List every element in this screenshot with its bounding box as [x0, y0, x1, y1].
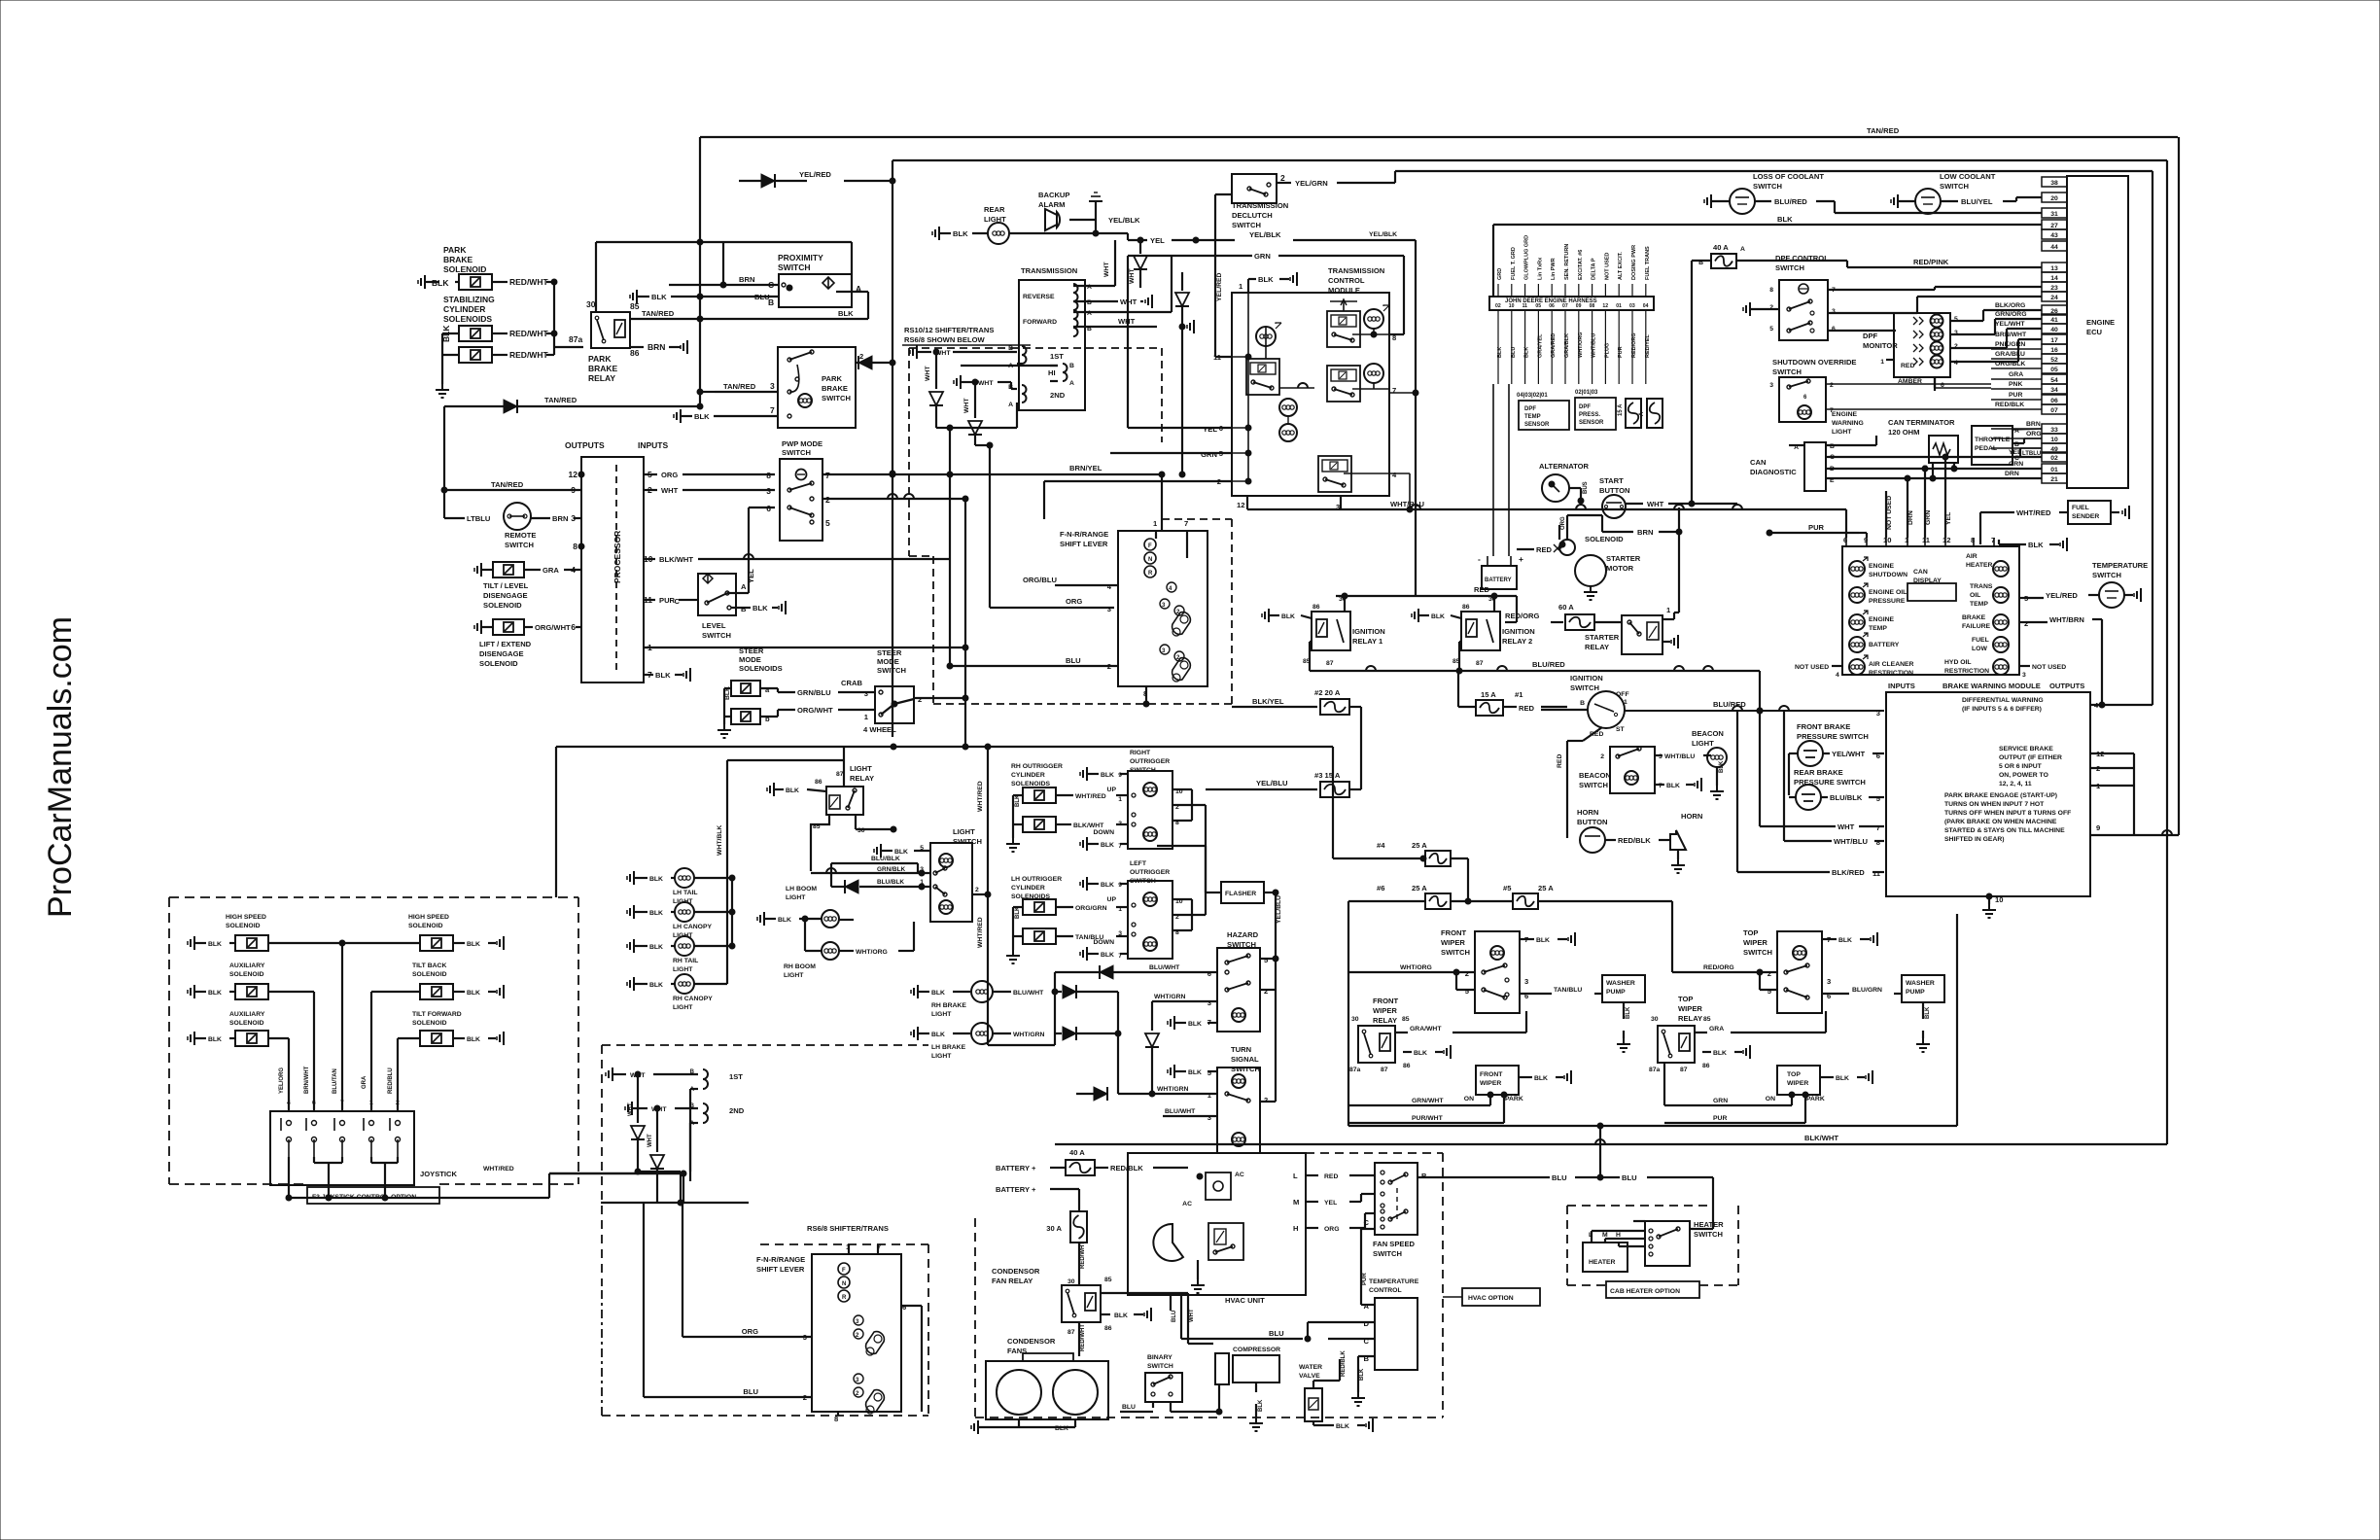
wire second top — [892, 159, 2167, 161]
svg-text:HORN: HORN — [1681, 812, 1702, 821]
john deere harness — [1489, 297, 1654, 310]
svg-text:YEL: YEL — [1203, 425, 1217, 434]
wire PUR pin11 — [644, 599, 655, 601]
svg-text:85: 85 — [630, 301, 640, 311]
svg-text:RESTRICTION: RESTRICTION — [1944, 668, 1989, 675]
svg-text:7: 7 — [770, 405, 775, 415]
wire BLK to proximity — [636, 290, 638, 303]
svg-text:02: 02 — [1495, 303, 1501, 309]
svg-text:CYLINDER: CYLINDER — [1011, 772, 1045, 779]
svg-text:SOLENOID: SOLENOID — [1585, 535, 1624, 543]
wire WHT/BLU row — [1341, 508, 1846, 510]
rs6/8 coils — [612, 1067, 613, 1081]
svg-text:YEL/WHT: YEL/WHT — [1832, 750, 1866, 758]
svg-text:B: B — [741, 605, 747, 613]
wire YEL row — [1127, 233, 1129, 240]
svg-text:6: 6 — [766, 504, 771, 513]
svg-text:86: 86 — [815, 779, 822, 786]
svg-text:BLK: BLK — [1666, 783, 1680, 789]
svg-text:07: 07 — [2050, 407, 2058, 414]
svg-text:8: 8 — [1769, 287, 1773, 294]
svg-text:HI: HI — [1048, 368, 1056, 377]
svg-text:BLK/YEL: BLK/YEL — [1252, 697, 1284, 706]
svg-text:FUEL: FUEL — [2072, 505, 2089, 511]
engine ecu pin column — [2042, 177, 2067, 187]
svg-text:2: 2 — [1280, 173, 1285, 183]
svg-text:87: 87 — [1067, 1329, 1075, 1336]
svg-text:PUR: PUR — [1713, 1115, 1727, 1122]
wire BLU/WHT turn3 — [1163, 1115, 1217, 1117]
wire PUR display — [1769, 532, 1859, 534]
svg-text:LIGHT: LIGHT — [931, 1011, 952, 1018]
svg-text:ST: ST — [1616, 726, 1626, 733]
svg-text:BLK: BLK — [838, 309, 854, 318]
svg-text:24: 24 — [2050, 295, 2058, 301]
svg-text:HVAC UNIT: HVAC UNIT — [1225, 1296, 1265, 1305]
wire whtblk branch — [727, 759, 844, 761]
svg-text:30: 30 — [1067, 1278, 1075, 1285]
svg-text:LIGHT: LIGHT — [784, 972, 804, 979]
svg-text:SWITCH: SWITCH — [1772, 367, 1802, 376]
svg-text:BRN/WHT: BRN/WHT — [1995, 332, 2027, 338]
svg-text:3: 3 — [1827, 977, 1831, 986]
water valve gnd — [1312, 1421, 1314, 1425]
svg-text:DECLUTCH: DECLUTCH — [1232, 211, 1273, 220]
svg-text:B: B — [1580, 700, 1585, 707]
svg-text:3: 3 — [1207, 1113, 1211, 1122]
svg-text:TAN/RED: TAN/RED — [491, 480, 524, 489]
can vertical drops — [1944, 457, 1946, 538]
svg-text:TOP: TOP — [1787, 1071, 1801, 1078]
svg-text:33: 33 — [2050, 427, 2058, 434]
svg-text:1ST: 1ST — [729, 1072, 743, 1081]
svg-text:PARK: PARK — [588, 354, 612, 364]
svg-text:DPF: DPF — [1524, 406, 1536, 412]
svg-text:SOLENOID: SOLENOID — [443, 264, 486, 274]
wire HI B WHT gnd — [961, 365, 1058, 367]
svg-text:40 A: 40 A — [1069, 1148, 1085, 1157]
svg-text:TAN/RED: TAN/RED — [642, 309, 675, 318]
svg-text:RED: RED — [1557, 754, 1563, 768]
svg-text:TRANSMISSION: TRANSMISSION — [1021, 266, 1077, 275]
svg-text:PROXIMITY: PROXIMITY — [778, 253, 823, 262]
svg-text:MODE: MODE — [739, 655, 761, 664]
svg-text:RH OUTRIGGER: RH OUTRIGGER — [1011, 763, 1063, 770]
svg-text:TEMPERATURE: TEMPERATURE — [2092, 561, 2148, 570]
svg-text:15 A: 15 A — [1481, 690, 1496, 699]
svg-text:2ND: 2ND — [729, 1106, 745, 1115]
svg-text:BLK: BLK — [467, 1036, 480, 1043]
svg-text:FRONT: FRONT — [1373, 997, 1399, 1005]
svg-text:#6: #6 — [1377, 884, 1384, 892]
svg-text:PARK: PARK — [1806, 1096, 1825, 1102]
svg-text:LEVEL: LEVEL — [702, 621, 726, 630]
svg-text:BLU: BLU — [754, 293, 770, 301]
rh tail light — [633, 939, 635, 953]
lever sub contacts 1 — [1167, 582, 1176, 592]
svg-text:RED: RED — [1519, 704, 1535, 713]
svg-text:TEMP: TEMP — [1869, 625, 1887, 632]
svg-text:DELTA P: DELTA P — [1592, 258, 1597, 280]
svg-text:WHT: WHT — [661, 486, 679, 495]
diode vertical 1 — [933, 349, 939, 355]
wire TAN/RED diode row — [444, 405, 700, 407]
rs6/8 diodes — [637, 1074, 639, 1123]
heater — [1583, 1242, 1627, 1272]
svg-text:CAB HEATER OPTION: CAB HEATER OPTION — [1610, 1288, 1680, 1295]
svg-text:SOLENOID: SOLENOID — [483, 601, 522, 610]
svg-text:WIPER: WIPER — [1480, 1080, 1501, 1087]
svg-text:AIR CLEANER: AIR CLEANER — [1869, 661, 1914, 668]
svg-text:BLU/BLK: BLU/BLK — [871, 856, 900, 862]
svg-text:RELAY: RELAY — [850, 774, 874, 783]
svg-text:CYLINDER: CYLINDER — [1011, 885, 1045, 892]
svg-text:30: 30 — [586, 299, 596, 309]
svg-text:DISENGAGE: DISENGAGE — [479, 649, 524, 658]
svg-text:GLOWPLUG GRD: GLOWPLUG GRD — [1524, 235, 1530, 280]
engine ecu box — [2067, 176, 2128, 488]
svg-text:BLK: BLK — [1101, 842, 1114, 849]
svg-text:ORG: ORG — [1066, 597, 1082, 606]
svg-text:BRAKE: BRAKE — [588, 364, 618, 373]
svg-text:11: 11 — [1872, 869, 1881, 878]
svg-text:PNK/GRN: PNK/GRN — [1995, 341, 2025, 348]
svg-text:3: 3 — [1876, 709, 1880, 717]
svg-text:5: 5 — [825, 518, 830, 528]
svg-text:04: 04 — [1643, 303, 1649, 309]
svg-text:BLU/GRN: BLU/GRN — [1852, 987, 1882, 994]
svg-text:FUEL: FUEL — [1972, 637, 1989, 644]
svg-text:SWITCH: SWITCH — [1373, 1249, 1402, 1258]
svg-text:B: B — [690, 1069, 695, 1075]
svg-text:WHT/BLK: WHT/BLK — [717, 825, 723, 856]
svg-text:DRN: DRN — [1907, 510, 1914, 525]
svg-text:GRN/BLK: GRN/BLK — [877, 866, 905, 873]
light switch rows — [831, 862, 914, 864]
svg-text:F: F — [842, 1268, 846, 1274]
wire pin7 ground — [644, 674, 653, 676]
svg-text:PNK: PNK — [2009, 381, 2022, 388]
svg-text:BRN: BRN — [552, 514, 568, 523]
svg-text:WASHER: WASHER — [1906, 980, 1935, 987]
svg-text:MONITOR: MONITOR — [1863, 341, 1898, 350]
wire forward B WHT ground — [1073, 326, 1157, 328]
svg-text:1: 1 — [1624, 699, 1627, 706]
svg-text:TILT / LEVEL: TILT / LEVEL — [483, 581, 529, 590]
svg-text:#1: #1 — [1515, 690, 1523, 699]
svg-text:BLK: BLK — [649, 876, 663, 883]
remote switch — [444, 517, 465, 519]
svg-text:GRN: GRN — [1713, 1098, 1728, 1104]
svg-text:LIGHT: LIGHT — [673, 1004, 693, 1011]
svg-text:6: 6 — [571, 622, 576, 632]
svg-text:WHT/BLU: WHT/BLU — [1834, 837, 1869, 846]
svg-text:RED: RED — [1536, 545, 1553, 554]
joystick common — [313, 1157, 315, 1163]
svg-text:BLK: BLK — [1101, 952, 1114, 959]
svg-text:1: 1 — [1880, 359, 1884, 366]
svg-text:43: 43 — [2050, 232, 2058, 239]
svg-text:SOLENOID: SOLENOID — [412, 1020, 447, 1027]
svg-text:B: B — [1008, 345, 1013, 352]
joystick box — [270, 1111, 414, 1185]
svg-text:HYD OIL: HYD OIL — [1944, 659, 1972, 666]
wire BLK/WHT long — [1055, 1143, 2167, 1145]
svg-text:Lin TxRx: Lin TxRx — [1537, 257, 1543, 280]
svg-text:GRA: GRA — [542, 566, 559, 575]
svg-text:PRESSURE: PRESSURE — [1869, 598, 1906, 605]
svg-text:(IF INPUTS 5 & 6 DIFFER): (IF INPUTS 5 & 6 DIFFER) — [1962, 706, 2042, 713]
svg-text:TEMP: TEMP — [1970, 601, 1988, 608]
svg-text:05: 05 — [2050, 367, 2058, 373]
svg-text:RS6/8 SHIFTER/TRANS: RS6/8 SHIFTER/TRANS — [807, 1224, 889, 1233]
svg-text:WIPER: WIPER — [1787, 1080, 1808, 1087]
svg-text:OFF: OFF — [1616, 691, 1629, 698]
svg-text:YEL/ORG: YEL/ORG — [279, 1067, 285, 1094]
svg-text:8: 8 — [766, 471, 771, 480]
svg-text:SWITCH: SWITCH — [1775, 263, 1804, 272]
svg-text:LH TAIL: LH TAIL — [673, 890, 698, 896]
svg-text:WIPER: WIPER — [1441, 938, 1465, 947]
svg-text:BATTERY: BATTERY — [1485, 577, 1512, 583]
svg-text:BLU: BLU — [1172, 1311, 1177, 1322]
svg-text:WHT/RED: WHT/RED — [2016, 508, 2051, 517]
svg-text:3: 3 — [1769, 382, 1773, 389]
svg-text:HORN: HORN — [1577, 808, 1598, 817]
svg-text:6: 6 — [1207, 969, 1211, 978]
svg-text:PRESS.: PRESS. — [1579, 412, 1600, 418]
lh tail light — [633, 871, 635, 885]
svg-text:TAN/BLU: TAN/BLU — [1075, 934, 1103, 941]
tilt/level disengage solenoid — [480, 563, 482, 577]
svg-text:85: 85 — [1703, 1016, 1711, 1023]
fans ground — [977, 1420, 979, 1434]
svg-text:BRN/WHT: BRN/WHT — [304, 1066, 310, 1094]
svg-text:87a: 87a — [1649, 1067, 1661, 1073]
front wiper motor — [1476, 1066, 1519, 1095]
svg-text:10: 10 — [1509, 303, 1515, 309]
svg-text:2ND: 2ND — [1050, 391, 1066, 400]
wire whtred joystick row — [549, 1172, 683, 1174]
svg-text:FAN RELAY: FAN RELAY — [992, 1277, 1032, 1285]
svg-text:38: 38 — [2050, 180, 2058, 187]
svg-text:BRN: BRN — [1637, 528, 1653, 537]
svg-text:HAZARD: HAZARD — [1227, 930, 1259, 939]
svg-text:BLU: BLU — [1066, 656, 1081, 665]
top wiper motor — [1777, 1066, 1820, 1095]
svg-text:87: 87 — [1381, 1067, 1388, 1073]
display lamps right — [1993, 561, 2009, 577]
svg-text:BRN: BRN — [2026, 421, 2041, 428]
wire BLU tempctl — [1181, 1338, 1303, 1340]
svg-text:SWITCH: SWITCH — [1147, 1363, 1173, 1370]
svg-text:2: 2 — [975, 887, 979, 893]
svg-text:YEL: YEL — [747, 569, 755, 583]
svg-text:PEDAL: PEDAL — [1975, 445, 1997, 452]
wire ORG vertical — [1558, 525, 1560, 540]
svg-text:C: C — [1364, 1218, 1370, 1227]
svg-text:DOSING PWR: DOSING PWR — [1631, 245, 1637, 280]
svg-text:M: M — [1293, 1198, 1299, 1207]
svg-text:DPF CONTROL: DPF CONTROL — [1775, 254, 1829, 262]
rh brake light — [917, 985, 919, 998]
svg-text:TOP: TOP — [1678, 995, 1693, 1003]
svg-text:LIGHT: LIGHT — [953, 827, 975, 836]
svg-text:WASHER: WASHER — [1606, 980, 1635, 987]
svg-text:BLK/WHT: BLK/WHT — [659, 555, 693, 564]
svg-text:WARNING: WARNING — [1832, 420, 1864, 427]
svg-text:SWITCH: SWITCH — [1743, 948, 1772, 957]
wire WHT module7 — [1760, 825, 1836, 827]
svg-text:ON: ON — [1464, 1096, 1474, 1102]
svg-text:BLU: BLU — [1552, 1173, 1567, 1182]
svg-text:WIPER: WIPER — [1678, 1004, 1702, 1013]
svg-text:2: 2 — [918, 695, 922, 704]
svg-text:PUMP: PUMP — [1906, 989, 1925, 996]
svg-text:RED/PINK: RED/PINK — [1913, 258, 1949, 266]
svg-text:PARK: PARK — [443, 245, 467, 255]
svg-text:RS6/8 SHOWN BELOW: RS6/8 SHOWN BELOW — [904, 335, 986, 344]
coil 2ND — [1022, 385, 1027, 402]
wire WHT riser — [1187, 1293, 1189, 1344]
svg-text:86: 86 — [1403, 1063, 1411, 1069]
svg-text:14: 14 — [2050, 275, 2058, 282]
svg-text:SOLENOID: SOLENOID — [226, 923, 261, 929]
svg-text:A: A — [1364, 1302, 1370, 1311]
svg-text:SWITCH: SWITCH — [1232, 221, 1261, 229]
svg-text:4: 4 — [287, 1100, 291, 1106]
svg-text:RH BRAKE: RH BRAKE — [931, 1002, 966, 1009]
svg-text:DIFFERENTIAL WARNING: DIFFERENTIAL WARNING — [1962, 697, 2044, 704]
svg-text:TAN/RED: TAN/RED — [544, 396, 577, 404]
svg-text:DIAGNOSTIC: DIAGNOSTIC — [1750, 468, 1797, 476]
svg-text:DRN: DRN — [2005, 471, 2019, 477]
svg-text:HEATER: HEATER — [1966, 562, 1993, 569]
svg-text:YEL: YEL — [1150, 236, 1165, 245]
svg-text:A: A — [1008, 402, 1013, 408]
svg-text:RED/WHT: RED/WHT — [1080, 1242, 1086, 1269]
fuel sender — [1980, 511, 2014, 513]
svg-text:WHT: WHT — [1118, 317, 1136, 326]
wire pwp pin2 to bus — [822, 498, 965, 500]
svg-text:16: 16 — [2050, 347, 2058, 354]
svg-text:SOLENOID: SOLENOID — [479, 659, 518, 668]
svg-text:LIGHT: LIGHT — [850, 764, 872, 773]
svg-text:BLU/RED: BLU/RED — [1774, 197, 1807, 206]
svg-text:BLK: BLK — [1719, 760, 1725, 773]
svg-text:HIGH SPEED: HIGH SPEED — [226, 914, 266, 921]
svg-text:BLK: BLK — [1836, 1075, 1849, 1082]
lift/extend disengage solenoid — [480, 620, 482, 634]
svg-text:BLK: BLK — [1258, 275, 1274, 284]
svg-text:LH BOOM: LH BOOM — [786, 886, 817, 892]
svg-text:BLU/BLK: BLU/BLK — [1830, 793, 1863, 802]
svg-text:BLK: BLK — [649, 910, 663, 917]
svg-text:INPUTS: INPUTS — [1888, 682, 1915, 690]
wire BLK 27 — [1493, 224, 2042, 226]
svg-text:ORG/WHT: ORG/WHT — [535, 623, 571, 632]
svg-text:HEATER: HEATER — [1589, 1259, 1616, 1266]
svg-text:COMPRESSOR: COMPRESSOR — [1233, 1347, 1280, 1353]
svg-text:BLK: BLK — [1777, 215, 1793, 224]
svg-text:INPUTS: INPUTS — [638, 440, 669, 450]
svg-text:BLK: BLK — [931, 990, 945, 997]
svg-text:3: 3 — [1118, 821, 1122, 827]
svg-text:YEL/RED: YEL/RED — [2046, 591, 2078, 600]
wire RED/PINK — [1736, 260, 1847, 262]
wire WHT/GRN hazard3 — [1152, 1000, 1217, 1002]
svg-text:CAN TERMINATOR: CAN TERMINATOR — [1888, 418, 1955, 427]
svg-text:AUXILIARY: AUXILIARY — [229, 1011, 265, 1018]
svg-text:TAN/RED: TAN/RED — [1867, 126, 1900, 135]
svg-text:IGNITION: IGNITION — [1570, 674, 1603, 682]
svg-text:PUMP: PUMP — [1606, 989, 1626, 996]
svg-text:+: + — [1519, 554, 1523, 564]
wire harness grounds down — [1492, 384, 1494, 556]
svg-text:L: L — [1293, 1172, 1298, 1180]
svg-text:GRA/WHT: GRA/WHT — [1410, 1026, 1442, 1032]
svg-text:85: 85 — [1104, 1277, 1112, 1283]
svg-text:#5: #5 — [1503, 884, 1512, 892]
svg-text:FRONT: FRONT — [1480, 1071, 1503, 1078]
svg-text:86: 86 — [1702, 1063, 1710, 1069]
svg-text:OUTRIGGER: OUTRIGGER — [1130, 869, 1170, 876]
svg-text:TAN/BLU: TAN/BLU — [1554, 987, 1582, 994]
lever2 contacts — [854, 1315, 863, 1325]
level switch — [685, 599, 698, 601]
svg-text:BLK: BLK — [752, 604, 768, 612]
svg-text:11: 11 — [1213, 353, 1222, 362]
svg-text:RELAY: RELAY — [1373, 1016, 1397, 1025]
svg-text:BLK: BLK — [208, 990, 222, 997]
wire whtblu pin6 — [1845, 509, 1847, 538]
wire yel/blu fuse3 — [1206, 788, 1317, 790]
svg-text:BRN/YEL: BRN/YEL — [1069, 464, 1102, 472]
hvac unit box — [1128, 1153, 1306, 1295]
svg-text:LIGHT: LIGHT — [786, 894, 806, 901]
svg-text:15 A: 15 A — [1618, 403, 1624, 416]
svg-text:87: 87 — [1680, 1067, 1688, 1073]
tcm pin rows — [1128, 427, 1232, 429]
svg-text:SWITCH: SWITCH — [702, 631, 731, 640]
wire BLU/RED to module — [1625, 710, 1884, 712]
svg-text:BLK: BLK — [1101, 772, 1114, 779]
wire BLU fan B — [1417, 1176, 1550, 1178]
svg-text:CAN: CAN — [1913, 569, 1928, 576]
svg-text:TURN: TURN — [1231, 1045, 1251, 1054]
svg-text:FUEL TRANS: FUEL TRANS — [1645, 246, 1651, 280]
svg-text:41: 41 — [2050, 317, 2058, 324]
svg-text:CYLINDER: CYLINDER — [443, 304, 485, 314]
svg-text:RED/WHT: RED/WHT — [509, 350, 548, 360]
svg-text:BLK: BLK — [208, 1036, 222, 1043]
svg-text:BLK: BLK — [1101, 882, 1114, 889]
svg-text:06: 06 — [2050, 398, 2058, 404]
wire 2nd A down — [1016, 402, 1018, 428]
display lamps left — [1849, 561, 1865, 577]
svg-text:9: 9 — [2096, 823, 2100, 832]
svg-text:WHT/GRN: WHT/GRN — [1157, 1086, 1189, 1093]
wire yel vertical x1160 — [1127, 272, 1129, 428]
svg-text:8: 8 — [1876, 838, 1880, 847]
svg-text:RELAY: RELAY — [1585, 643, 1609, 651]
svg-text:FAN SPEED: FAN SPEED — [1373, 1240, 1416, 1248]
svg-text:SERVICE BRAKE: SERVICE BRAKE — [1999, 746, 2053, 752]
svg-text:YEL/BLK: YEL/BLK — [1108, 216, 1140, 225]
display pins right — [2019, 597, 2025, 599]
svg-text:NOT USED: NOT USED — [1886, 496, 1893, 530]
svg-text:BUS: BUS — [1583, 481, 1589, 494]
